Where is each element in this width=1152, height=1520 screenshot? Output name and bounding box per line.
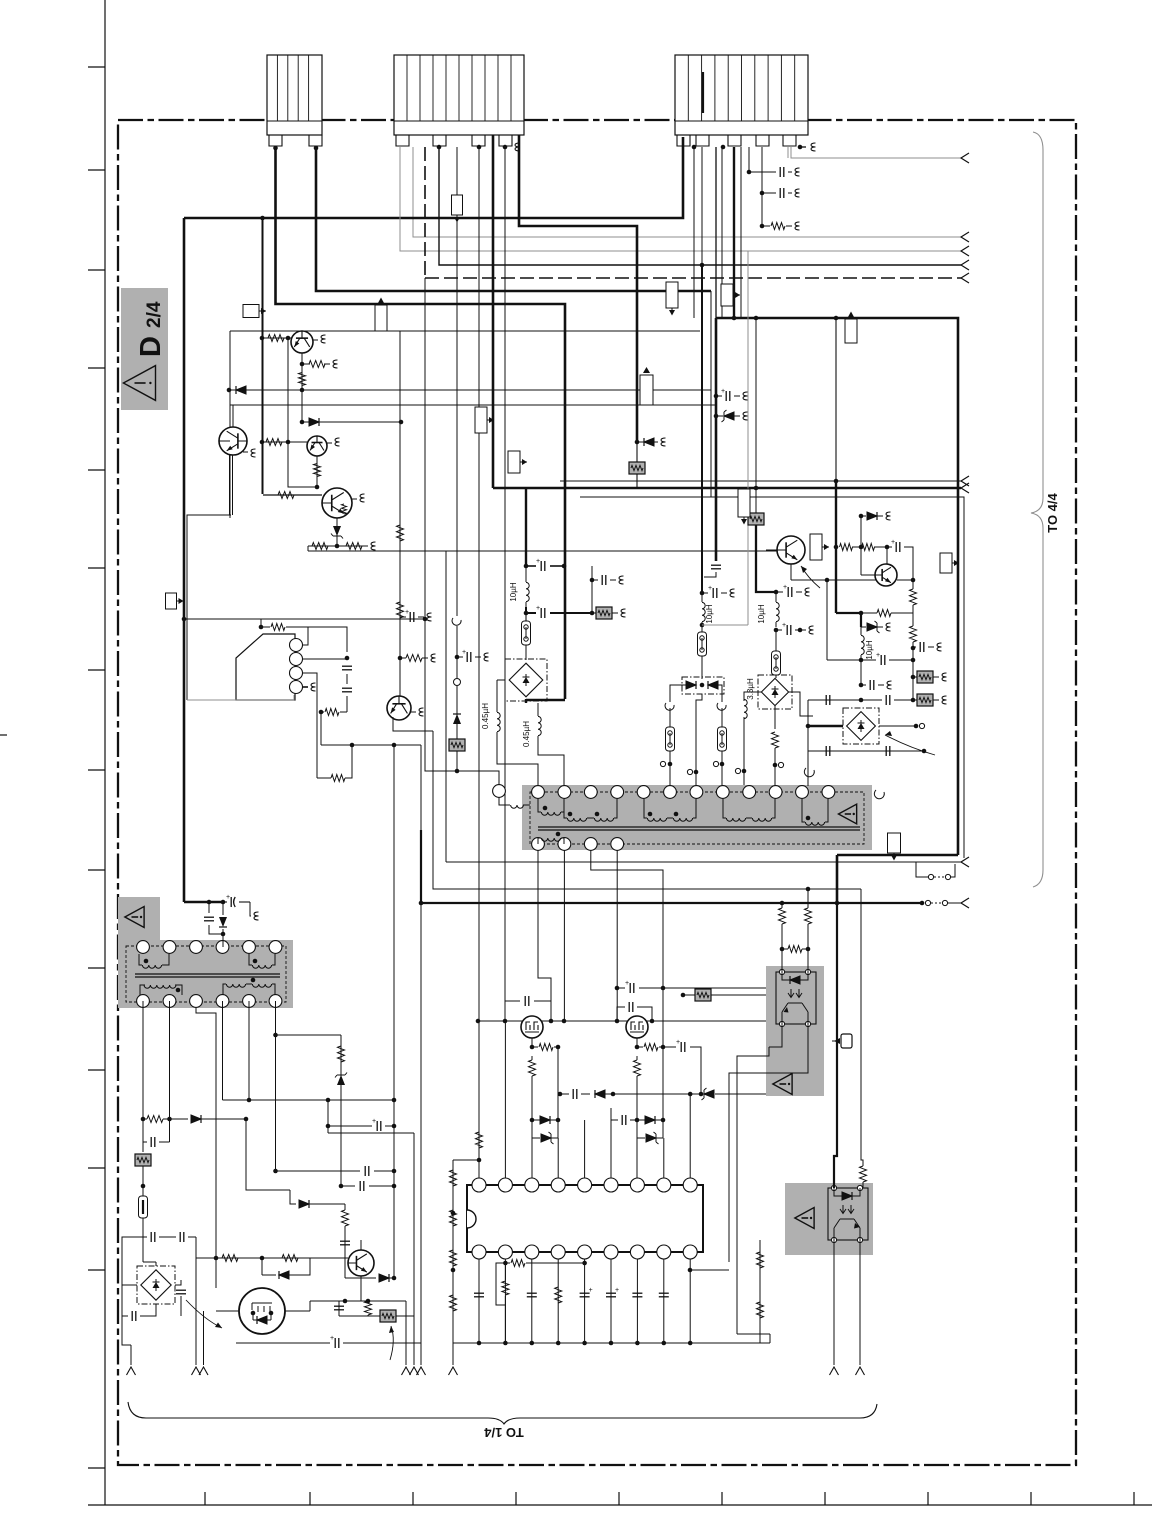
wire x734 thick to big box top <box>733 147 735 318</box>
sheet label D 2/4 gray box <box>121 288 168 410</box>
junction <box>227 388 232 393</box>
T902 winding1 <box>142 965 161 968</box>
wire y442 base feed Q3 <box>262 441 307 443</box>
svg-text:+: + <box>536 558 540 565</box>
transistor Q1 <box>291 331 313 353</box>
IC901 notch <box>467 1210 476 1228</box>
wire to ground <box>122 1316 131 1365</box>
boxed resistor R at x637 <box>636 442 638 462</box>
junction <box>214 1256 219 1261</box>
wire mosfet Q9 top <box>636 1016 638 1021</box>
connector mark K10 <box>845 319 857 343</box>
wire x861 down <box>860 660 862 685</box>
wire x592 up <box>591 566 593 613</box>
svg-text:+: + <box>372 1118 376 1125</box>
wire y546 rail <box>308 546 368 551</box>
resistor R5 vertical <box>314 464 321 477</box>
junction <box>260 440 265 445</box>
wire thick x836 <box>835 481 837 613</box>
open terminal right col <box>713 761 718 766</box>
thick stub into DB4 <box>808 725 843 728</box>
wire x457 cluster <box>457 656 463 658</box>
wire y547 resistors <box>836 546 838 548</box>
boxed resistor R47 <box>748 513 764 525</box>
T901 pins bottom <box>532 838 545 851</box>
svg-text:10µH: 10µH <box>705 604 714 624</box>
ground chevron <box>127 1367 136 1375</box>
T902 pins top <box>137 941 150 954</box>
resistor R16 vertical <box>772 732 779 748</box>
mosfet Q8 <box>521 1016 543 1038</box>
wire x749 drop with cap stub <box>748 147 750 172</box>
svg-text:+: + <box>676 1039 680 1046</box>
wire x196 to ground <box>196 1258 204 1365</box>
diode D7 vertical <box>222 902 224 947</box>
T901 windings group2 <box>567 818 586 821</box>
junction <box>732 316 737 321</box>
svg-text:0.45µH: 0.45µH <box>481 703 490 729</box>
wire thick bridge out <box>526 699 565 703</box>
svg-text:+: + <box>536 605 540 612</box>
schematic dash-dot frame <box>118 120 1076 1465</box>
resistor R27b vertical <box>450 1250 457 1266</box>
diode D8 <box>191 1115 201 1123</box>
wire x446 drop <box>445 551 447 862</box>
wire L2 down <box>497 732 538 786</box>
resistor R31 between pins <box>505 1262 510 1264</box>
wire x617 to rail <box>616 988 618 1021</box>
junction thick y613 <box>524 611 529 616</box>
wire x321 drop <box>320 712 322 745</box>
arrow to 4/4 <box>961 476 969 486</box>
wire T902 pins down <box>143 1001 276 1258</box>
diode D13 zener <box>532 1120 540 1138</box>
page connector pin4 <box>302 686 308 688</box>
capacitor C19 row y1126 <box>328 1125 372 1127</box>
arrow to 4/4 <box>961 232 969 242</box>
page connector at CN903 pin <box>811 143 816 151</box>
wire thick x837 drop to bus y903 <box>836 855 839 903</box>
junction <box>834 316 839 321</box>
junction <box>335 544 340 549</box>
resistor stub x762 y226 <box>762 225 770 227</box>
wire DB2 right vertex link <box>789 692 813 716</box>
wire x702 to cluster <box>701 265 703 593</box>
connector mark K2 <box>243 305 259 318</box>
wire bus y265 <box>439 147 961 265</box>
wire Q2 collector up <box>232 405 234 427</box>
wire x457 drop long <box>456 147 458 657</box>
resistor R42 between <box>788 946 802 953</box>
wire x479 drop long <box>478 147 480 1021</box>
wire <box>525 566 527 607</box>
capacitor C10 stub <box>776 591 783 593</box>
capacitor C20 row y1171 <box>276 1170 361 1172</box>
T901 windings group4 <box>726 818 745 821</box>
boxed resistor R46 <box>913 677 917 700</box>
capacitor C16 vertical <box>176 1289 186 1291</box>
annotation arrow Q11 <box>801 566 820 588</box>
zener D17 <box>704 1090 714 1098</box>
wire CN901 pin2 drop to y291 rail <box>316 148 711 291</box>
wire bus y862 <box>446 861 961 863</box>
wire columns to fuses <box>670 708 722 727</box>
T902 winding3 <box>144 985 176 988</box>
bottom rail y1343 <box>453 1342 770 1344</box>
T901 secondary winding <box>541 838 560 841</box>
resistor R34 vertical <box>476 1132 483 1148</box>
diode D6 <box>708 681 718 689</box>
svg-text:+: + <box>589 1287 593 1294</box>
capacitor C29 <box>632 1292 642 1294</box>
row y1100 <box>223 1099 395 1101</box>
capacitor C1 <box>342 665 352 667</box>
resistor R8 <box>346 543 362 550</box>
sub-circuit thin box <box>230 331 700 518</box>
svg-text:+: + <box>876 652 880 659</box>
wire x756 drop <box>755 318 757 488</box>
connector CN901 <box>267 55 322 135</box>
arrow to 4/4 <box>961 260 969 270</box>
junction <box>774 590 779 595</box>
gray link wire <box>702 624 748 626</box>
connector CN903 pin stubs <box>677 135 690 146</box>
capacitor C5 <box>526 565 536 567</box>
wire L5 down <box>743 717 745 766</box>
capacitor C10b row <box>776 629 782 631</box>
capacitor at box edge end <box>711 564 721 566</box>
junction <box>260 336 265 341</box>
wire T901 pin3 to x663 <box>591 850 663 1047</box>
diode D11 <box>262 1258 276 1275</box>
wire IC pin 16 <box>636 1259 638 1343</box>
IC901 top pin wires <box>478 1021 480 1178</box>
resistor R27 vertical <box>450 1210 457 1226</box>
wire long y551 to Q11 base <box>308 550 777 551</box>
junction <box>700 683 705 688</box>
resistor R23 <box>282 1255 298 1262</box>
IC901 bottom pins <box>472 1245 486 1259</box>
wire x246 down <box>246 1119 290 1190</box>
wire y405 long <box>230 404 716 406</box>
svg-text:+: + <box>708 585 712 592</box>
wire Q3 emitter down <box>316 456 318 487</box>
PC902 transistor <box>834 1219 860 1240</box>
PC901 arrows <box>788 989 802 998</box>
resistor R40 feed vertical <box>781 903 783 908</box>
wire to T pins <box>670 751 722 786</box>
wire x769 down to x737 <box>737 1047 769 1334</box>
wire to bridge DB2 <box>775 675 777 678</box>
open terminal lower <box>922 749 927 754</box>
resistor R22 <box>222 1255 238 1262</box>
T901 spare pin circle <box>493 785 506 798</box>
wire x722 drop <box>721 147 723 318</box>
wire drop to page connector <box>250 902 251 916</box>
transformer T901 body <box>522 785 872 850</box>
resistor R29 vertical <box>555 1287 562 1303</box>
dual diode pack dashed box <box>682 677 724 694</box>
resistor R36 vertical <box>529 1060 536 1076</box>
capacitor C39 <box>895 542 897 552</box>
capacitor C6 row <box>526 607 536 613</box>
wire thick CN902 leg y226 to x637 <box>519 135 637 442</box>
wire Q10 base <box>861 547 875 575</box>
row y700 caps <box>808 699 861 701</box>
wire y390 with diode <box>229 389 711 391</box>
resistor stub R2 <box>300 362 305 367</box>
wire x421 long drop <box>420 745 422 1365</box>
diode D16 <box>595 1090 605 1098</box>
wire CN901 pin1 drop to y304 rail <box>276 148 566 699</box>
diode stub at x637 <box>637 441 658 443</box>
diode D14 <box>645 1116 655 1124</box>
wire x275 down <box>275 1119 277 1171</box>
hook symbol <box>804 768 814 777</box>
wire x169 join <box>167 1117 172 1122</box>
resistor R19 vertical <box>338 1046 345 1062</box>
left ruler ticks <box>88 67 105 1468</box>
svg-text:10µH: 10µH <box>865 640 874 660</box>
wire mosfet Q8 top <box>531 1016 533 1021</box>
gray wire y700 <box>187 699 236 701</box>
wire IC pin 11 <box>504 1259 506 1343</box>
capacitor C23 vertical <box>338 1301 340 1316</box>
wire x505 drop long <box>504 147 506 1001</box>
wire Q2 emitter return <box>187 515 231 700</box>
transformer T902 body <box>118 940 293 1008</box>
resistor R33 vertical <box>757 1302 764 1318</box>
boxed resistor R14 <box>449 739 465 751</box>
svg-text:TO 1/4: TO 1/4 <box>483 1425 523 1440</box>
capacitor C8 stub <box>702 592 708 594</box>
T901 primary winding <box>541 812 560 815</box>
wire cap to chainA <box>704 572 716 577</box>
wire T901 pin2 drop <box>563 850 565 1021</box>
warning triangle <box>125 907 144 928</box>
wire Q1 emitter down <box>301 353 303 390</box>
wire <box>701 593 703 632</box>
resistor R4 <box>266 439 282 446</box>
page connector Q5 <box>411 711 416 713</box>
connector CN903 polarity mark <box>702 72 704 113</box>
wire x425 solid drop <box>425 278 457 771</box>
svg-text:10µH: 10µH <box>509 582 518 602</box>
T902 winding4 <box>226 984 245 987</box>
capacitor C31 gate <box>505 1001 520 1021</box>
fuse F6 vertical <box>139 1196 148 1218</box>
wire DB4 right <box>879 725 916 727</box>
wire thick x493 from CN902 <box>492 135 495 488</box>
junction gray link <box>700 623 705 628</box>
wire PC902 outputs to ground <box>834 1240 860 1365</box>
wire y580 <box>791 579 876 581</box>
page connector Q4 <box>352 498 357 500</box>
connector link o--o lower <box>925 900 930 905</box>
wire row y1258 <box>196 1257 348 1259</box>
wire <box>860 627 862 660</box>
row y1133 <box>328 1132 414 1134</box>
resistor R11 vertical <box>397 525 404 541</box>
wire pin1 up <box>302 627 308 645</box>
diode D12 <box>540 1116 550 1124</box>
ground chevron <box>856 1367 865 1375</box>
wire bridge bottom <box>140 1304 156 1316</box>
row y619 long <box>184 618 425 620</box>
boxed resistor R39 <box>695 989 711 1001</box>
wire to arrow <box>948 902 961 904</box>
wire y422 diode branch <box>302 390 401 422</box>
T901 core double line <box>538 827 860 830</box>
warning triangle in sheet label <box>123 366 155 401</box>
diode D9 <box>290 1190 296 1204</box>
resistor R12 vertical <box>397 602 404 618</box>
resistor R44 vertical <box>910 589 917 605</box>
wire y338 base feed <box>262 337 291 339</box>
connector mark K13 <box>738 489 750 517</box>
T902 winding5 <box>252 984 271 987</box>
zener stub on box edge y416 <box>714 414 719 419</box>
wire y1270 link <box>690 1270 770 1334</box>
transistor Q5 <box>387 696 411 720</box>
warning gray tab <box>118 897 160 940</box>
connector mark K4 <box>452 195 463 215</box>
hook symbol right <box>717 703 726 710</box>
wire IC pin 13 <box>557 1259 559 1343</box>
wire thick left drop x184 <box>183 218 186 902</box>
connector mark K3 <box>375 305 387 331</box>
diode D10 <box>345 1252 376 1278</box>
page border bottom rule <box>88 1504 1152 1506</box>
junction <box>300 388 305 393</box>
wire to IC pin <box>636 1138 638 1178</box>
diode D2 <box>309 418 319 426</box>
mosfet Q9 connections <box>637 1038 643 1047</box>
wire x457 diode <box>456 686 458 739</box>
wire thick x526 <box>525 488 527 566</box>
wire x716 to big box <box>715 147 717 318</box>
junction <box>700 591 705 596</box>
bridge rectifier DB1 <box>505 659 547 701</box>
capacitor C14 <box>150 1232 152 1242</box>
connector mark K6 <box>666 282 678 308</box>
optocoupler PC901 gray box <box>766 966 824 1096</box>
small rect component K1 <box>810 534 822 560</box>
thick y613 row <box>836 613 861 627</box>
wire thick bus y218 and CN903 leg <box>184 137 683 218</box>
resistor R28 vertical <box>450 1295 457 1311</box>
resistor R43 <box>877 610 891 617</box>
T901 windings group3 <box>647 818 666 821</box>
wire y988 <box>617 987 625 989</box>
capacitor C36 <box>572 1089 574 1099</box>
open terminal left col <box>660 761 665 766</box>
capacitor C15 <box>179 1232 181 1242</box>
transistor Q4 <box>322 488 352 518</box>
wire x702 drop <box>701 147 703 265</box>
wire x788 gray drop <box>787 147 789 158</box>
wire PC902 right feed resistor <box>861 889 863 1166</box>
page connector at CN902 pin <box>515 143 520 151</box>
PC901 body <box>776 972 816 1024</box>
ground chevron double <box>192 1367 201 1375</box>
boxed resistor R15 <box>592 612 596 614</box>
page connector Q1 collector <box>313 339 318 341</box>
row y751 caps <box>808 750 924 752</box>
wire x694 drop <box>693 147 695 318</box>
resistor Q4 internal <box>342 504 347 514</box>
capacitor C21 row y1186 <box>341 1185 355 1187</box>
wire to IC pins <box>531 1138 533 1178</box>
resistor R37 <box>644 1044 658 1051</box>
Q7 diode internal <box>257 1316 267 1324</box>
diode D18 stub up <box>861 516 866 547</box>
wire <box>142 1166 144 1196</box>
big mosfet circle Q7 <box>239 1288 285 1334</box>
capacitor C44 <box>885 695 887 705</box>
bridge rectifier DB2 <box>758 675 792 709</box>
wire x457 to T901 aux pin <box>457 751 499 785</box>
wire pin5 <box>584 1120 586 1178</box>
T901 windings group5 <box>805 822 824 825</box>
PC902 arrows <box>840 1205 854 1214</box>
wire pin8 <box>663 1138 665 1178</box>
fuse F5 <box>775 630 777 651</box>
connector pins circles <box>290 639 303 652</box>
resistor R24 vertical <box>365 1301 372 1315</box>
hook symbol x457 <box>452 618 461 678</box>
capacitor C27 pol <box>580 1292 590 1294</box>
annotation arrow <box>186 1300 222 1328</box>
arrow to 4/4 <box>961 483 969 493</box>
wire Q6 <box>340 1240 361 1301</box>
wire pack sides <box>670 685 722 702</box>
inductor L2 0.45uH <box>497 680 505 712</box>
row y627 <box>261 619 270 627</box>
wire x288 vertical <box>288 338 317 487</box>
wire y495 feed <box>263 494 322 496</box>
PC901 transistor <box>782 1003 808 1024</box>
PC902 body <box>828 1188 868 1240</box>
connector mark K15 <box>166 593 177 609</box>
open terminal <box>919 723 924 728</box>
resistor R6 <box>278 492 294 499</box>
ground chevron triple <box>402 1367 411 1375</box>
transistor Q6 <box>348 1250 374 1276</box>
wire x762 drop with stubs <box>761 147 763 226</box>
wire x328 drop <box>327 1100 329 1133</box>
junction bus y488 <box>754 486 759 491</box>
T901 pins top <box>532 786 545 799</box>
wire pin4 <box>557 1138 559 1178</box>
wire pin6 <box>610 1108 612 1178</box>
resistor R13 stub <box>400 657 406 659</box>
T902 winding2 <box>252 965 271 968</box>
capacitor stub x762 y193 <box>762 192 776 194</box>
transistor Q3 <box>307 436 327 456</box>
wire pack center to pin7 <box>696 694 702 786</box>
capacitor C30 <box>659 1292 669 1294</box>
wire Q5 emitter down <box>393 717 433 731</box>
junction <box>524 564 529 569</box>
zener D3 <box>333 526 341 536</box>
connector mark K19 <box>841 1034 852 1048</box>
wire gray bus y251 <box>400 147 961 251</box>
page connector Q3 <box>327 442 332 444</box>
wire x400 drop <box>399 147 401 251</box>
wire x558 down <box>557 1047 559 1120</box>
boxed resistor R45 <box>913 660 917 677</box>
